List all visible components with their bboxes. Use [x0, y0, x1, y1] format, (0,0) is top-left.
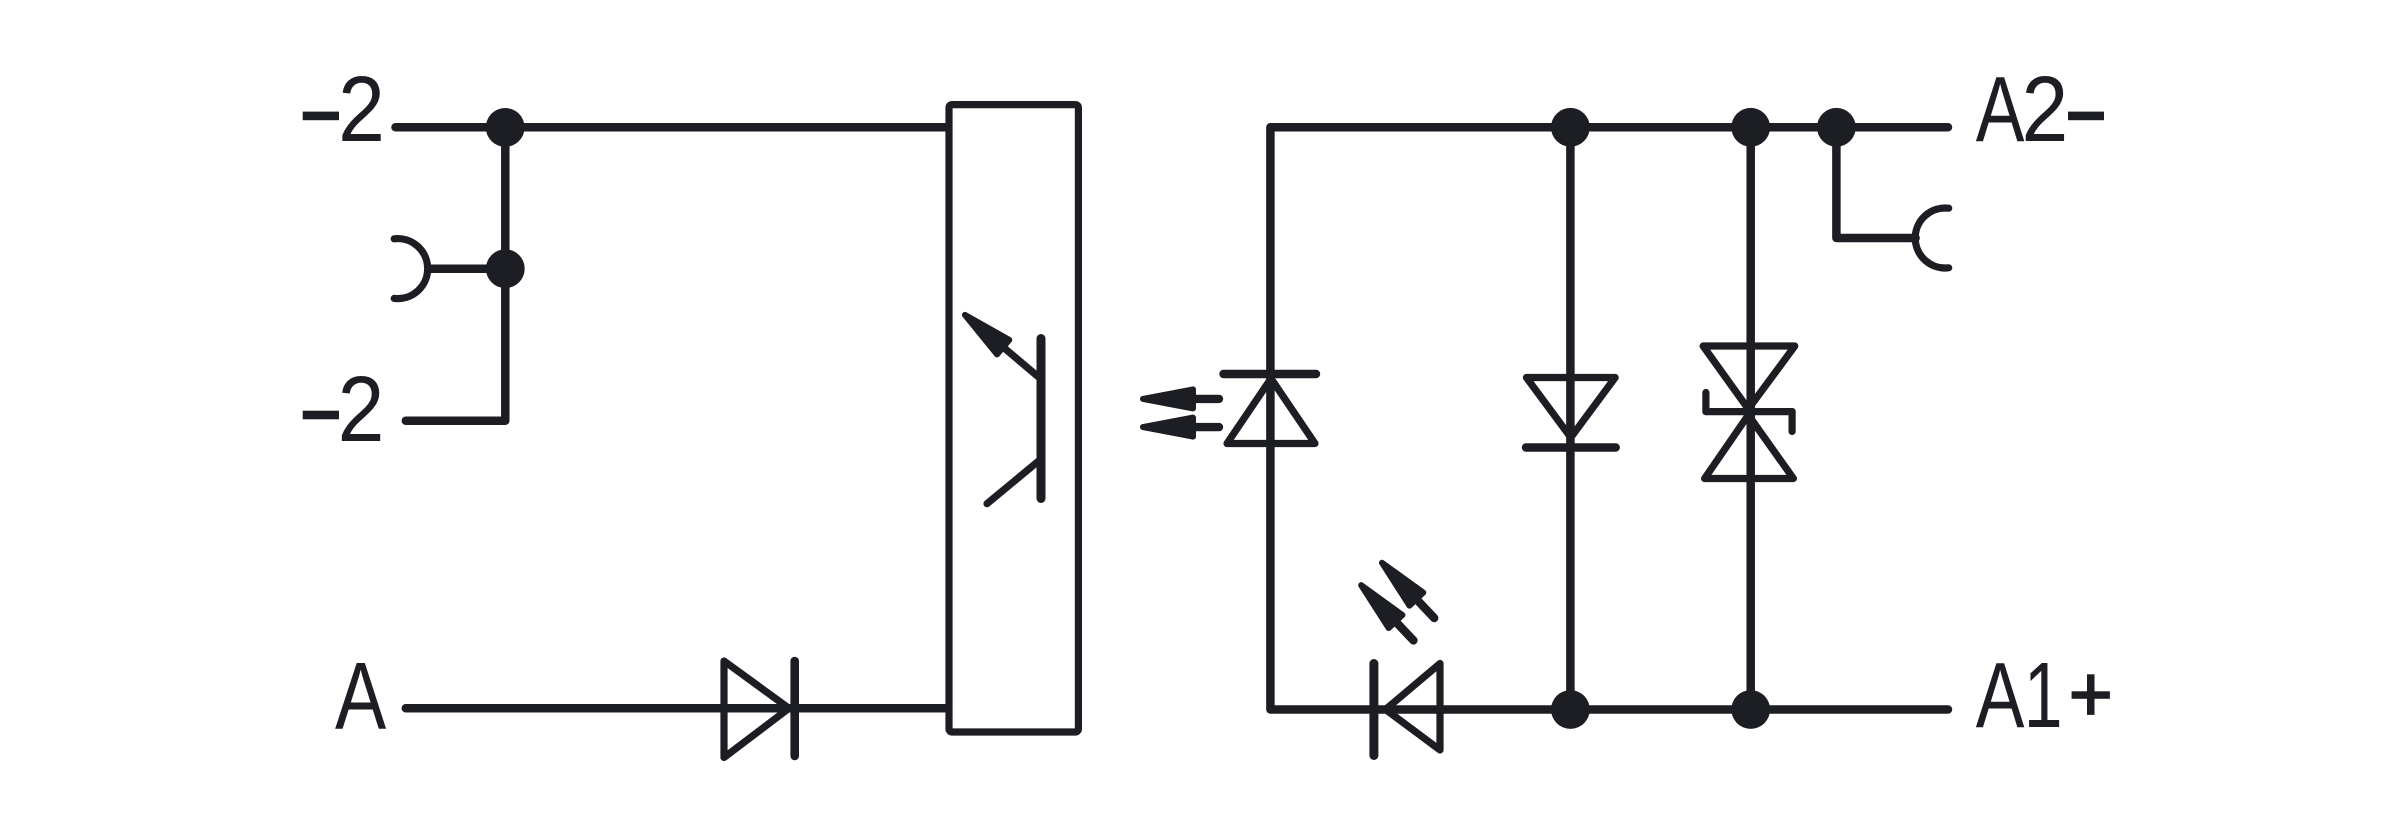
node dot top rail at D2 branch: [1551, 108, 1590, 147]
node junction dot J2: [486, 249, 525, 288]
svg-text:2: 2: [338, 357, 385, 461]
terminal label A1+ plus vertical bar: [2087, 674, 2095, 715]
svg-text:A: A: [1976, 642, 2025, 747]
status LED emitted light arrow 2: [1354, 579, 1420, 647]
terminal label -2 (lower left) minus: [303, 411, 339, 420]
optocoupler LED cathode bar: [1224, 370, 1317, 378]
diode D1 triangle (series diode on A line): [724, 661, 789, 758]
connector socket arc (right): [1915, 208, 1948, 268]
wire: connector stub from A2- rail: [1836, 127, 1915, 238]
wire: input network rails (top rail, left branch, bottom rail): [1270, 127, 1948, 709]
svg-text:2: 2: [338, 57, 385, 161]
wire: TVS branch vertical: [1746, 127, 1755, 709]
terminal label A2- minus: [2068, 112, 2104, 121]
TVS suppressor right tab: [1788, 412, 1795, 432]
node dot top rail at connector stub: [1817, 108, 1856, 147]
wire: D2 branch vertical: [1566, 127, 1575, 709]
wire: connector stub to J2: [429, 264, 505, 273]
light arrow 1 (LED to phototransistor): [1143, 389, 1219, 408]
optocoupler LED triangle: [1227, 379, 1315, 444]
svg-text:2: 2: [2022, 57, 2069, 161]
wire: vertical from J1 down with corner to lower -2 terminal: [406, 127, 506, 420]
wire: -2 terminal to optocoupler box (top): [396, 123, 946, 132]
terminal label A1+ plus horizontal bar: [2072, 691, 2110, 699]
connector socket arc (left): [394, 239, 427, 299]
TVS suppressor lower triangle: [1705, 415, 1794, 479]
terminal label -2 (top left) minus: [303, 112, 339, 121]
TVS suppressor middle bar: [1706, 408, 1792, 415]
node dot bottom rail at TVS branch: [1731, 690, 1770, 729]
status LED emitted light arrow 1: [1375, 556, 1441, 624]
TVS suppressor upper triangle: [1703, 346, 1795, 409]
diode D1 cathode bar: [790, 661, 799, 756]
wire: A terminal to optocoupler box (bottom): [406, 704, 945, 713]
phototransistor Q1 bar: [1037, 339, 1046, 499]
light arrow 2 (LED to phototransistor): [1143, 418, 1219, 437]
node junction dot J1: [486, 108, 525, 147]
svg-text:1: 1: [2024, 644, 2063, 747]
svg-text:A: A: [335, 643, 386, 750]
status LED cathode bar: [1369, 664, 1378, 756]
optocoupler U1 body rectangle: [949, 105, 1078, 732]
status LED triangle: [1386, 664, 1441, 751]
TVS suppressor left tab: [1702, 393, 1709, 412]
free-wheeling diode D2 cathode bar: [1526, 443, 1616, 451]
node dot top rail at TVS branch: [1731, 108, 1770, 147]
svg-text:A: A: [1976, 56, 2025, 161]
phototransistor Q1 emitter line: [987, 459, 1041, 504]
free-wheeling diode D2 triangle: [1526, 378, 1615, 438]
phototransistor Q1 collector arrow: [959, 308, 1048, 387]
node dot bottom rail at D2 branch: [1551, 690, 1590, 729]
